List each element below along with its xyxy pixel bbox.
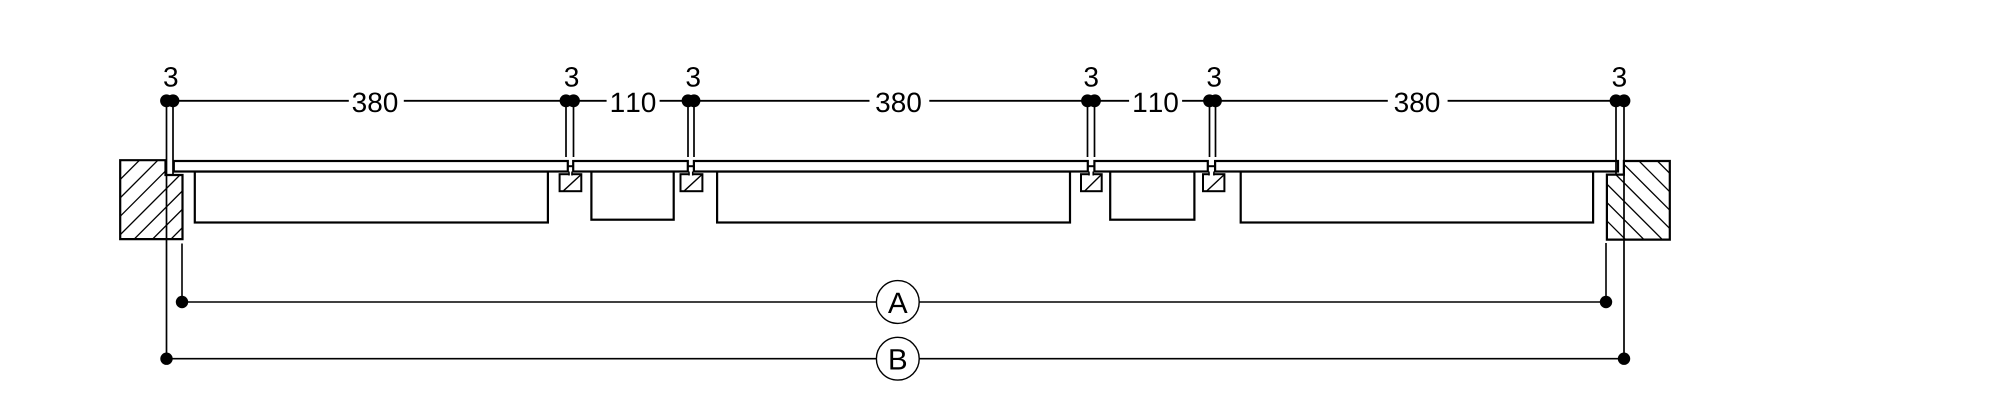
- dot B left: [160, 353, 172, 365]
- dimension point dots 2: [560, 94, 573, 107]
- dimension label 110 (second): [1134, 92, 1177, 112]
- dimension label 380 (third): [1395, 92, 1440, 112]
- dimension point dots 4: [1081, 94, 1094, 107]
- countertop slab segment 1: [174, 161, 568, 172]
- countertop slab segment 5: [1215, 161, 1618, 172]
- dimension label 110 (first): [612, 92, 655, 112]
- gap for label 380 (second): [870, 90, 930, 112]
- countertop slab segment 4: [1094, 161, 1207, 172]
- wall section left (hatched): [42, 160, 250, 239]
- dimension point dots 6: [1610, 94, 1623, 107]
- joint neck 2: [570, 173, 572, 176]
- joint neck 4: [1090, 173, 1093, 176]
- dot A left: [176, 296, 188, 308]
- dimension point dots 3: [682, 94, 695, 107]
- gap label 3 (point 2): [565, 67, 578, 87]
- gap for label 110 (second): [1129, 90, 1182, 112]
- support block at joint 2 (square with diagonal): [560, 174, 582, 191]
- gap label 3 (point 5): [1207, 67, 1220, 87]
- gap for label 380 (first): [349, 90, 404, 112]
- top dimension line: [167, 100, 1625, 102]
- appliance box 3 (under second 380 section): [717, 172, 1070, 223]
- countertop slab segment 3: [694, 161, 1088, 172]
- extension line pair point 4: [1087, 101, 1089, 157]
- dimension line A: [182, 301, 1606, 303]
- dimension label 380 (first): [353, 92, 398, 112]
- gap for label 380 (third): [1388, 90, 1448, 112]
- dot B right: [1618, 353, 1630, 365]
- dot A right: [1600, 296, 1612, 308]
- gap label 3 (point 3): [686, 67, 699, 87]
- gap label 3 (point 6): [1613, 67, 1626, 87]
- wall face extension left (for A): [181, 244, 183, 303]
- joint bridge 4: [1088, 165, 1095, 167]
- joint bridge 3: [688, 165, 694, 167]
- joint bridge 2 (mid-thickness connector): [568, 165, 573, 167]
- wall section right (hatched): [1607, 111, 1670, 303]
- joint neck 3: [690, 173, 692, 176]
- extension line pair point 1: [166, 101, 168, 359]
- wall face extension right (for A): [1605, 243, 1607, 302]
- support block at joint 4 (square with diagonal): [1081, 174, 1102, 191]
- balloon A: [876, 281, 919, 324]
- gap label 3 (point 4): [1084, 67, 1097, 87]
- extension line pair point 6: [1615, 101, 1617, 175]
- extension line pair point 5: [1209, 101, 1211, 157]
- dimension point dots 5: [1203, 94, 1216, 107]
- extension line pair point 2: [565, 101, 567, 157]
- extension line pair point 3: [687, 101, 689, 157]
- joint bridge 5: [1208, 165, 1215, 167]
- support block at joint 5 (square with diagonal): [1203, 174, 1224, 191]
- gap label 3 (point 1): [164, 67, 177, 87]
- appliance box 1 (under first 380 section): [195, 172, 548, 223]
- joint neck 5: [1210, 173, 1214, 176]
- appliance box 4 (under second 110 section): [1110, 172, 1194, 220]
- support block at joint 3 (square with diagonal): [681, 174, 703, 191]
- dimension label 380 (second): [876, 92, 921, 112]
- appliance box 2 (under first 110 section): [591, 172, 673, 220]
- dimension point dots 1: [160, 94, 173, 107]
- gap for label 110 (first): [607, 90, 660, 112]
- dimension line B: [167, 358, 1625, 360]
- appliance box 5 (under third 380 section): [1241, 172, 1593, 223]
- balloon B: [876, 337, 919, 380]
- countertop slab segment 2: [573, 161, 688, 172]
